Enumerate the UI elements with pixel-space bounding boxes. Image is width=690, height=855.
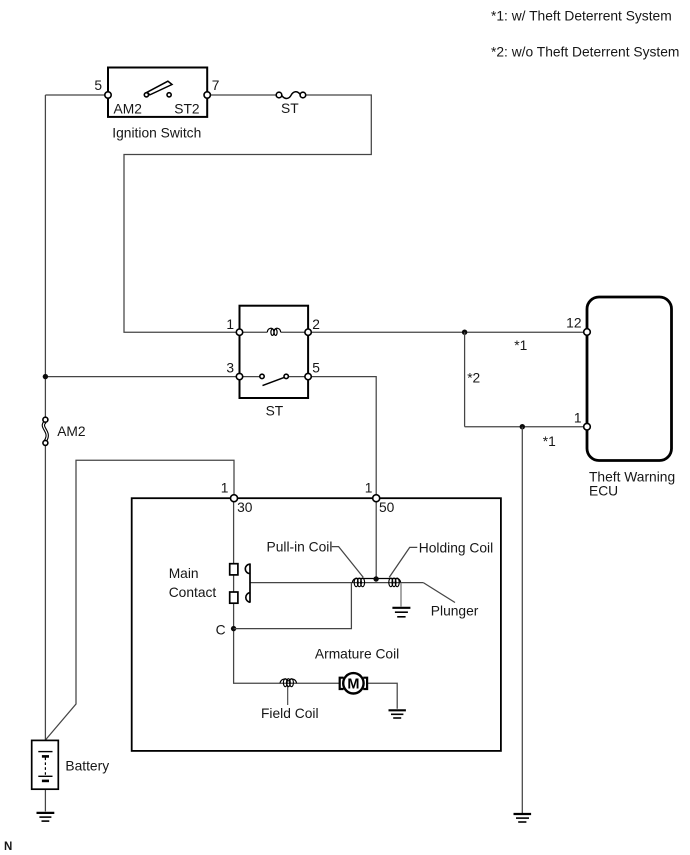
fuse ST: [282, 92, 300, 99]
pull-in coil: [354, 578, 358, 587]
svg-text:2: 2: [312, 317, 320, 332]
theft warning ECU box: [587, 297, 672, 461]
starter terminal 30: [231, 495, 238, 502]
svg-text:1: 1: [365, 481, 373, 496]
svg-text:12: 12: [566, 315, 581, 330]
wire: holding coil ground stem: [400, 583, 402, 607]
svg-text:N: N: [4, 841, 12, 853]
battery: [32, 740, 59, 789]
svg-text:Armature Coil: Armature Coil: [315, 647, 399, 662]
svg-text:*2: *2: [467, 371, 480, 386]
motor brackets: [340, 678, 344, 689]
svg-text:1: 1: [574, 410, 582, 425]
node junction left rail / relay3: [43, 374, 48, 379]
wire: fuse ST right, down, left, down to relay pin1: [124, 95, 371, 332]
relay terminal 3: [236, 373, 242, 379]
node junction before ECU pin1: [520, 424, 525, 429]
wire: contact bar to pull-in coil: [250, 582, 423, 584]
wire: holding coil callout: [389, 547, 417, 577]
node C junction: [231, 626, 236, 631]
relay terminal 5: [305, 373, 311, 379]
svg-text:ST: ST: [266, 403, 284, 418]
svg-text:Field Coil: Field Coil: [261, 706, 319, 721]
svg-text:ST: ST: [281, 101, 299, 116]
wire: relay pin2 to ECU pin12: [311, 331, 584, 333]
bottom right ground: [514, 814, 532, 822]
svg-text:ECU: ECU: [589, 484, 618, 499]
wire switch to relay pin5: [288, 376, 305, 378]
switch contact circles ignition: [144, 93, 148, 97]
svg-text:5: 5: [94, 78, 102, 93]
wire: starter pin50 down to coil junction: [375, 502, 377, 579]
wire: field coil label stem: [287, 685, 289, 705]
svg-text:5: 5: [312, 361, 320, 376]
node junction coils / pin50 wire: [373, 576, 378, 581]
wire: between contact squares: [233, 575, 235, 592]
svg-text:Plunger: Plunger: [431, 603, 479, 618]
wire: left rail to ST relay pin3: [45, 376, 236, 378]
wire: junction down to bottom ground: [521, 427, 523, 814]
svg-text:Holding Coil: Holding Coil: [419, 541, 493, 556]
svg-text:*1: *1: [514, 338, 527, 353]
svg-text:C: C: [216, 623, 226, 638]
main contact bar: [249, 563, 251, 602]
node junction *2 branch top: [462, 330, 467, 335]
wire: battery negative to ground: [44, 789, 46, 811]
svg-text:AM2: AM2: [114, 102, 142, 117]
svg-text:50: 50: [379, 500, 395, 515]
starter box: [132, 498, 501, 751]
relay terminal 2: [305, 329, 311, 335]
relay terminal 1: [236, 329, 242, 335]
wire: raised link between pull-in and holding coils: [352, 579, 400, 583]
motor ground: [389, 710, 406, 718]
svg-text:ST2: ST2: [174, 102, 199, 117]
terminal 5: [105, 92, 111, 98]
ST relay box: [240, 306, 309, 398]
svg-text:*2: w/o Theft Deterrent System: *2: w/o Theft Deterrent System: [491, 45, 679, 60]
motor M1: [343, 673, 363, 693]
wire: below contact to field coil corner: [234, 603, 340, 683]
svg-text:3: 3: [226, 361, 234, 376]
ECU terminal 1: [584, 423, 591, 430]
wire: ignition switch pin5 to left rail: [45, 94, 108, 96]
svg-text:1: 1: [226, 317, 234, 332]
svg-text:AM2: AM2: [57, 424, 85, 439]
wire: pull-in coil callout: [332, 547, 364, 578]
starter terminal 50: [373, 495, 380, 502]
ECU terminal 12: [584, 329, 591, 336]
relay coil: [267, 328, 273, 332]
wire: plunger callout diagonal: [423, 583, 455, 603]
wire relay pin3 to switch: [243, 376, 260, 378]
wire: starter pin30 down to main contact: [233, 502, 235, 564]
svg-text:*1: w/ Theft Deterrent System: *1: w/ Theft Deterrent System: [491, 8, 672, 23]
main contact squares: [230, 564, 238, 575]
holding coil ground: [392, 608, 410, 617]
wire: motor to ground: [367, 683, 397, 709]
wire: ignition pin7 to fuse ST: [210, 94, 276, 96]
wire: relay pin5 right and down to starter pin50: [311, 377, 376, 495]
svg-text:Main: Main: [169, 566, 199, 581]
relay switch contacts: [260, 374, 264, 378]
wire: AM2 fusible link to battery: [44, 445, 46, 740]
wire relay pin1 to coil: [243, 331, 268, 333]
field coil: [280, 679, 288, 683]
svg-text:M: M: [347, 677, 359, 693]
svg-text:30: 30: [237, 500, 253, 515]
main contact arcs: [245, 564, 250, 573]
terminal 7: [204, 92, 210, 98]
svg-text:Ignition Switch: Ignition Switch: [112, 125, 201, 140]
svg-text:Battery: Battery: [65, 758, 109, 773]
wire: left rail vertical down to AM2 fusible link: [44, 95, 46, 417]
wire: *2 branch to ECU pin1: [465, 426, 584, 428]
svg-text:*1: *1: [543, 434, 556, 449]
wire: battery positive diagonal and up to starter pin30: [45, 460, 234, 740]
relay switch blade: [263, 377, 285, 385]
svg-text:Pull-in Coil: Pull-in Coil: [267, 540, 333, 555]
svg-text:Theft Warning: Theft Warning: [589, 469, 675, 484]
switch blade ignition: [147, 81, 172, 95]
holding coil: [389, 578, 393, 587]
ignition switch box: [108, 68, 207, 117]
wire: pull-in coil left down and to node C: [234, 583, 352, 629]
svg-text:1: 1: [221, 481, 229, 496]
svg-text:Contact: Contact: [169, 585, 217, 600]
wire coil to relay pin2: [281, 331, 305, 333]
AM2 fusible link: [43, 422, 47, 441]
wire: *2 branch vertical: [464, 332, 466, 427]
battery ground: [37, 813, 55, 821]
svg-text:7: 7: [212, 78, 220, 93]
